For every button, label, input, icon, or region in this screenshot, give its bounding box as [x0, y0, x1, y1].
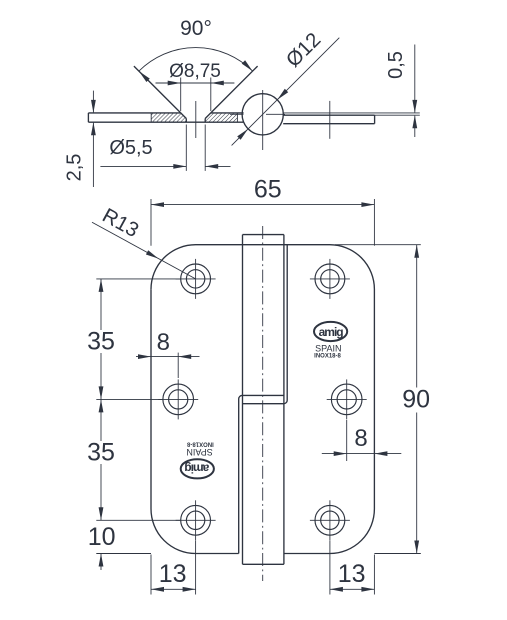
- svg-text:35: 35: [87, 328, 115, 356]
- svg-text:SPAIN: SPAIN: [186, 447, 212, 457]
- svg-text:90°: 90°: [180, 17, 212, 40]
- svg-text:amig: amig: [319, 325, 344, 339]
- svg-text:SPAIN: SPAIN: [315, 343, 341, 353]
- svg-text:0,5: 0,5: [385, 51, 407, 79]
- svg-text:35: 35: [87, 439, 115, 467]
- svg-text:10: 10: [88, 523, 116, 551]
- svg-text:13: 13: [338, 560, 366, 588]
- svg-text:Ø5,5: Ø5,5: [109, 137, 152, 159]
- svg-text:8: 8: [157, 329, 170, 356]
- svg-text:13: 13: [159, 560, 187, 588]
- svg-text:amig: amig: [185, 461, 210, 475]
- svg-text:65: 65: [254, 176, 282, 204]
- svg-text:INOX18-8: INOX18-8: [186, 441, 213, 447]
- svg-text:Ø8,75: Ø8,75: [169, 61, 221, 82]
- svg-text:INOX18-8: INOX18-8: [314, 354, 341, 360]
- svg-text:2,5: 2,5: [64, 154, 86, 182]
- svg-text:8: 8: [354, 425, 367, 452]
- svg-text:90: 90: [402, 386, 430, 414]
